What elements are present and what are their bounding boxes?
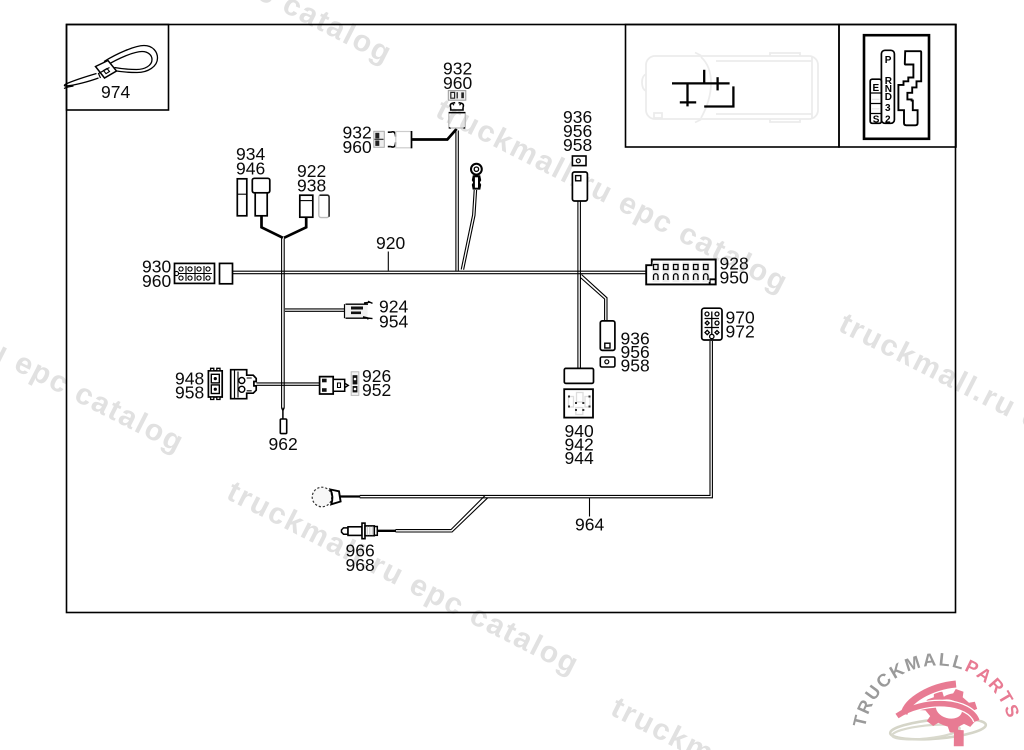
- svg-text:truckmall.ru epc catalog: truckmall.ru epc catalog: [222, 475, 585, 682]
- svg-text:946: 946: [236, 159, 265, 179]
- svg-text:944: 944: [565, 448, 594, 468]
- connector 928/950: [646, 260, 716, 285]
- wire 932 vertical drop (double line): [456, 131, 458, 271]
- shell: [396, 132, 412, 148]
- connector 948/958 small clip: [208, 368, 222, 399]
- eyelet terminal: [471, 164, 482, 190]
- tick for label 920: [387, 252, 389, 271]
- wire 966 sensor lead (double line): [396, 495, 488, 532]
- connector 932/960 top assembly: [448, 91, 466, 129]
- svg-text:972: 972: [726, 322, 755, 342]
- shell: [449, 113, 466, 128]
- wire 962 tip taper: [282, 408, 285, 420]
- svg-text:964: 964: [575, 515, 604, 535]
- svg-text:960: 960: [343, 137, 372, 157]
- wire branch to lower 936 (double diagonal): [580, 275, 607, 321]
- frame border: [67, 25, 957, 613]
- svg-text:974: 974: [101, 82, 130, 102]
- svg-text:938: 938: [297, 176, 326, 196]
- svg-text:truckmall.ru epc catalog: truckmall.ru epc catalog: [35, 0, 398, 71]
- connector 932/960 left assembly: [374, 131, 412, 148]
- svg-text:954: 954: [379, 312, 408, 332]
- connector lower 936/956/958 body: [600, 321, 615, 351]
- truck location box: [626, 25, 840, 148]
- tick for label 964: [589, 498, 591, 516]
- wire 924 branch (double line): [285, 309, 344, 311]
- svg-text:D: D: [885, 92, 892, 103]
- cable tie 974: [64, 46, 158, 89]
- svg-text:P: P: [885, 55, 892, 66]
- terminal 962: [280, 419, 286, 434]
- connector 948/958 main housing: [231, 370, 257, 399]
- bulb socket (964 left end): [312, 487, 340, 507]
- connector 926/952: [320, 377, 349, 394]
- svg-text:960: 960: [142, 271, 171, 291]
- wire 932/960 bold link: [412, 129, 457, 140]
- connector 940/942/944 cap: [564, 368, 593, 383]
- harness location marks: [672, 70, 733, 107]
- connector 930/960 boot: [220, 263, 233, 283]
- svg-text:S: S: [873, 114, 880, 125]
- connector 926/952 mate: [351, 372, 359, 396]
- svg-text:968: 968: [346, 555, 375, 575]
- wire merge from 922/938: [284, 217, 306, 238]
- wire merge from 934/946: [262, 216, 283, 238]
- shift gate: [898, 51, 921, 125]
- svg-text:962: 962: [269, 434, 298, 454]
- gear shift pattern: [864, 35, 929, 139]
- connector 922/938 pair: [300, 195, 329, 218]
- wire main vertical trunk to 962 (double line): [282, 239, 285, 408]
- logo swirl ellipses: [889, 715, 986, 742]
- svg-text:920: 920: [376, 233, 405, 253]
- wire eyelet lead (double line): [461, 190, 476, 270]
- connector 924/954: [345, 301, 373, 319]
- wire 948 to 926 branch (double line): [257, 383, 321, 385]
- wire sensor lead bold: [377, 530, 396, 532]
- connector lower 936/956/958 clip: [600, 357, 615, 367]
- svg-text:958: 958: [563, 135, 592, 155]
- wire 964 long run with riser to 970 (double line): [360, 341, 713, 498]
- svg-text:2: 2: [885, 114, 891, 125]
- wire 936 vertical (double line): [578, 202, 581, 369]
- connector 934/946 left (two-piece): [237, 178, 269, 216]
- svg-text:3: 3: [885, 103, 891, 114]
- svg-text:958: 958: [175, 383, 204, 403]
- connector 936/956/958 upper body: [572, 172, 587, 201]
- gear pattern box: [839, 25, 956, 148]
- bold harness merge lines: [262, 129, 457, 531]
- truck top-view outline: [642, 53, 818, 123]
- wire 920 main horizontal trunk (double line): [233, 271, 648, 274]
- box 974: [67, 25, 169, 111]
- wire bulb lead bold: [341, 495, 361, 497]
- svg-text:960: 960: [443, 73, 472, 93]
- logo gear: [911, 681, 982, 750]
- svg-text:952: 952: [362, 380, 391, 400]
- clip spring: [450, 103, 463, 110]
- svg-text:E: E: [873, 83, 880, 94]
- clip spring: [388, 132, 396, 147]
- logo pink swooshes: [897, 684, 977, 721]
- svg-text:958: 958: [621, 356, 650, 376]
- relay 940/942/944: [564, 389, 593, 417]
- sensor 966/968: [342, 523, 378, 539]
- connector 936/956/958 upper clip: [572, 156, 586, 166]
- connector 930/960 pin housing: [174, 263, 214, 283]
- svg-text:truckmall.ru epc catalog: truckmall.ru epc catalog: [834, 307, 1024, 514]
- connector 970/972: [702, 308, 722, 340]
- svg-text:950: 950: [720, 268, 749, 288]
